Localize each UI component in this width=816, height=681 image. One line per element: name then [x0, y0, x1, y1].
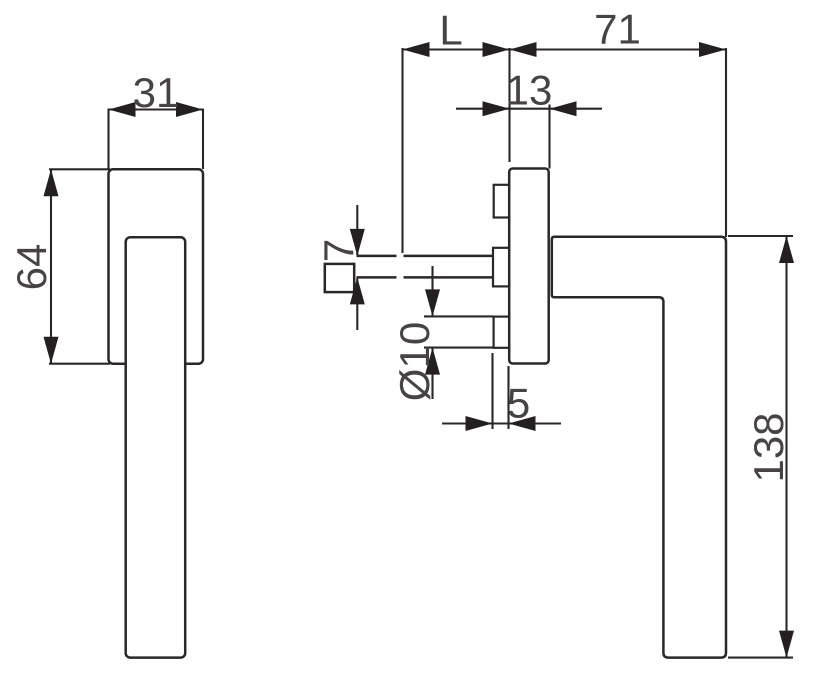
spindle square end [325, 264, 354, 292]
spindle bar (side view, with break at L extension) [357, 256, 495, 278]
rosette front view [109, 169, 204, 363]
svg-text:71: 71 [594, 6, 641, 53]
handle neck and grip (side view) [552, 237, 726, 658]
svg-text:64: 64 [8, 244, 55, 291]
screw boss tab bottom (side view) [494, 317, 511, 348]
dimension 5 (tab protrusion) [442, 353, 561, 431]
dimension 64 (rosette height, front view) [8, 169, 110, 363]
svg-text:Ø10: Ø10 [391, 322, 438, 401]
rosette side view [509, 169, 549, 364]
screw boss tab top (side view) [494, 185, 511, 218]
dimension Ø10 (screw hole) [391, 266, 494, 401]
svg-text:138: 138 [745, 412, 792, 482]
svg-text:7: 7 [315, 239, 362, 262]
svg-text:31: 31 [133, 69, 180, 116]
dimension 7 (spindle square) [315, 205, 365, 330]
spindle hub tab (side view) [493, 248, 511, 287]
dimension 13 (rosette thickness) [456, 67, 602, 169]
svg-text:L: L [439, 7, 462, 54]
dimension 138 (grip length) [728, 236, 794, 658]
dimension L (top left of side view) [403, 7, 510, 254]
grip bar front view [126, 237, 186, 657]
svg-text:13: 13 [506, 67, 553, 114]
svg-text:5: 5 [507, 380, 530, 427]
dimension 71 (top right of side view) [510, 6, 727, 238]
dimension 31 (front view width) [109, 69, 204, 169]
